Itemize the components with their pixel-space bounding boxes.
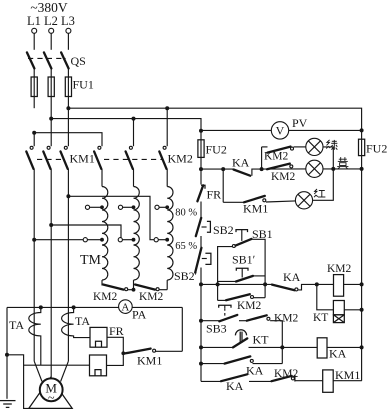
- wire coil3 bottom stub: [166, 280, 168, 290]
- node green branch: [260, 167, 264, 171]
- wire red row: [223, 169, 333, 202]
- terminal L3: [66, 28, 71, 33]
- node lamps right: [360, 167, 364, 171]
- svg-text:KM2: KM2: [93, 291, 118, 303]
- node SB1 branch left: [216, 282, 220, 286]
- autotransformer TM coil 1: [102, 187, 108, 281]
- svg-text:SB2: SB2: [213, 223, 234, 237]
- switch QS pole 1: [27, 52, 35, 77]
- svg-text:KM2: KM2: [264, 151, 289, 163]
- wire red branch vertical: [222, 169, 224, 202]
- autotransformer TM coil 2: [134, 187, 140, 281]
- wire green row: [262, 147, 334, 169]
- wire TA1 bottom to FR2: [24, 364, 90, 366]
- svg-text:SB2ʹ: SB2ʹ: [174, 269, 198, 283]
- relay contact KM1 ammeter: [125, 307, 182, 353]
- node frame bond: [5, 353, 9, 357]
- node coil KT right: [360, 308, 364, 312]
- contactor KM2 pole 3: [159, 146, 167, 186]
- wire row1: [201, 284, 334, 290]
- pushbutton SB2: [196, 218, 211, 236]
- label red hanzi: [314, 189, 325, 197]
- node phase3 tap feed: [66, 194, 70, 198]
- contactor KM1 pole 2: [43, 146, 51, 380]
- wire motor lead 3: [61, 361, 69, 381]
- node TA2 top: [72, 305, 76, 309]
- node KT row junction: [280, 345, 284, 349]
- fuse FU2 right: [359, 139, 365, 381]
- svg-text:L1: L1: [27, 14, 41, 28]
- thermal element FR1: [90, 327, 107, 347]
- svg-text:FR: FR: [109, 324, 124, 338]
- relay contact KA bottom: [221, 374, 247, 381]
- svg-text:TA: TA: [9, 318, 24, 332]
- current transformer TA2: [62, 307, 90, 337]
- svg-text:KM1: KM1: [70, 152, 95, 166]
- wire coil1 bottom stub: [101, 280, 103, 285]
- wire rail SB2 to SB2p: [200, 236, 202, 248]
- svg-text:PA: PA: [132, 308, 147, 322]
- svg-text:~: ~: [48, 390, 55, 404]
- node row2 left: [199, 319, 203, 323]
- terminal L2: [49, 28, 54, 33]
- relay contact KA lamp row: [234, 170, 251, 176]
- wire KT branch: [317, 284, 334, 309]
- svg-text:KA: KA: [232, 156, 250, 170]
- relay contact KA row1: [272, 285, 298, 291]
- node KM2 pole2 feed: [132, 117, 136, 121]
- wire L2 drop to QS: [50, 33, 52, 50]
- node L2 branch junction: [49, 117, 53, 121]
- svg-text:KA: KA: [329, 347, 347, 361]
- node coil KM2 right: [360, 282, 364, 286]
- node L1 branch junction: [32, 131, 36, 135]
- relay holding contact KM2: [218, 284, 266, 300]
- svg-text:QS: QS: [71, 54, 86, 68]
- current transformer TA1: [29, 307, 41, 365]
- label yellow hanzi: [337, 157, 348, 169]
- wire L3 drop to QS: [67, 33, 69, 50]
- tap 65 coil2: [118, 238, 135, 242]
- terminal L1: [32, 28, 37, 33]
- svg-text:KM2: KM2: [274, 368, 299, 380]
- switch QS pole 2: [44, 52, 52, 77]
- node lamp collector: [331, 167, 335, 171]
- voltmeter PV: [271, 122, 288, 139]
- fuse FU1 phase 2: [48, 77, 54, 119]
- contact KM1 red: [244, 196, 266, 202]
- node phase1 tap feed: [32, 238, 36, 242]
- contactor KM1 pole 1: [26, 146, 34, 361]
- wire right rail: [361, 130, 363, 139]
- thermal element FR2: [90, 355, 107, 376]
- coil KA: [317, 338, 361, 358]
- svg-text:SB1: SB1: [252, 227, 273, 241]
- node star junction: [132, 288, 136, 292]
- node row4 left: [199, 362, 203, 366]
- coil KT with delay element: [333, 301, 361, 323]
- lamp yellow: [306, 160, 323, 177]
- tap 65 coil1: [83, 238, 104, 242]
- node phase2 tap feed: [49, 223, 53, 227]
- motor mount triangle: [29, 378, 72, 409]
- tap 80 coil3: [155, 205, 169, 209]
- svg-text:A: A: [121, 302, 129, 314]
- wire row3: [201, 346, 317, 348]
- wire coil2 bottom stub: [133, 280, 135, 290]
- svg-text:~380V: ~380V: [30, 0, 68, 15]
- wire phase3 to coil3 65 tap: [68, 196, 154, 239]
- pushbutton SB2 prime: [195, 248, 211, 273]
- contactor KM1 pole 3: [61, 146, 69, 361]
- wire row4: [201, 347, 282, 363]
- node TA1 top: [39, 305, 43, 309]
- switch QS pole 3: [61, 52, 69, 77]
- motor M: [40, 378, 63, 404]
- svg-text:KM2: KM2: [237, 300, 262, 312]
- svg-text:KT: KT: [313, 312, 328, 324]
- wire TA secondary bus: [7, 306, 182, 308]
- wire left earth rail: [6, 307, 8, 398]
- wire L1 drop to QS: [33, 33, 35, 50]
- svg-text:SB1ʹ: SB1ʹ: [232, 253, 256, 267]
- svg-text:FU2: FU2: [366, 142, 387, 156]
- node KA row junction: [221, 167, 225, 171]
- svg-text:TA: TA: [75, 314, 90, 328]
- ammeter PA: [119, 300, 133, 314]
- fuse FU1 phase 1: [31, 77, 37, 108]
- node row1 left: [199, 282, 203, 286]
- thermal contact FR: [197, 185, 205, 201]
- svg-text:KM2: KM2: [327, 263, 352, 275]
- svg-text:KA: KA: [283, 270, 301, 284]
- tap 65 coil3: [154, 238, 169, 242]
- pushbutton SB1 prime: [218, 268, 266, 281]
- svg-text:L2: L2: [44, 14, 58, 28]
- svg-text:PV: PV: [292, 116, 308, 130]
- wire KA lamp row: [201, 169, 362, 176]
- svg-text:TM: TM: [80, 253, 102, 268]
- wire phase1 to KM1: [33, 133, 35, 147]
- relay holding contact KA: [225, 356, 254, 363]
- coil KM2: [334, 275, 362, 297]
- wire row2: [201, 321, 282, 348]
- svg-text:SB3: SB3: [206, 322, 227, 336]
- svg-text:KA: KA: [246, 364, 264, 378]
- svg-text:FR: FR: [207, 188, 222, 202]
- pushbutton SB1: [232, 230, 251, 248]
- wire feed KM2 pole2: [133, 119, 135, 147]
- coil KM1: [323, 370, 362, 392]
- wire FR1 right: [107, 337, 124, 365]
- wire left rail upper: [200, 157, 202, 184]
- node coil KA right: [360, 345, 364, 349]
- fuse FU1 phase 3: [65, 77, 71, 108]
- contactor KM2 star contact 2: [135, 285, 167, 291]
- contactor KM2 pole 1: [94, 146, 102, 186]
- wire motor frame bond: [7, 355, 33, 409]
- svg-text:L3: L3: [61, 14, 75, 28]
- time contact KT delayed close: [233, 330, 247, 348]
- wire L1 branch to KM2 pole1: [34, 133, 102, 147]
- wire L2 branch to control left rail: [51, 119, 201, 140]
- node row3 left: [199, 345, 203, 349]
- relay contact KM2 row2: [247, 315, 270, 320]
- QS linkage dashed: [28, 57, 66, 59]
- svg-text:FU1: FU1: [73, 78, 94, 92]
- ground symbol: [0, 401, 16, 408]
- contactor KM2 pole 2: [126, 146, 134, 186]
- node FR common: [121, 351, 125, 355]
- wire phase2 to KM1: [50, 119, 52, 147]
- svg-text:KM2: KM2: [271, 171, 296, 183]
- wire motor lead 1: [34, 361, 42, 381]
- wire row5 bottom: [201, 380, 323, 383]
- tap 80 coil1: terminal and dot: [85, 205, 104, 209]
- svg-text:V: V: [276, 124, 285, 138]
- svg-text:KM1: KM1: [243, 202, 268, 216]
- node KA row left: [199, 167, 203, 171]
- wire rail FR to SB2: [200, 202, 202, 219]
- wire SB1 branch: [218, 239, 266, 284]
- pushbutton SB3: [219, 305, 238, 321]
- svg-text:KM2: KM2: [168, 152, 193, 166]
- wire phase3 to KM1: [67, 108, 69, 146]
- autotransformer TM coil 3: [167, 187, 173, 281]
- label green hanzi: [326, 140, 337, 150]
- svg-text:FU2: FU2: [206, 143, 227, 157]
- svg-text:KM1: KM1: [335, 368, 360, 382]
- wire L3 branch to right rail: [68, 108, 361, 130]
- svg-text:KM1: KM1: [137, 354, 162, 368]
- contact KM2 yellow: [267, 164, 293, 170]
- contactor KM2 star contact 1: [103, 285, 134, 291]
- relay contact KM2 NC bottom: [272, 375, 295, 382]
- svg-text:80 %: 80 %: [175, 207, 197, 218]
- node L3 branch junction: [66, 106, 70, 110]
- wire feed KM2 pole3: [166, 108, 168, 146]
- lamp green: [306, 138, 323, 155]
- svg-text:KM2: KM2: [274, 313, 299, 325]
- tap 80 coil2: [118, 205, 135, 209]
- node SB1 branch right: [263, 282, 267, 286]
- node KT branch top: [315, 282, 319, 286]
- svg-text:KT: KT: [253, 333, 270, 347]
- svg-text:65 %: 65 %: [175, 241, 197, 252]
- wire green branch vertical: [261, 147, 263, 169]
- svg-text:KM2: KM2: [139, 291, 164, 303]
- wire phase1 to coil1 65 tap: [34, 239, 83, 241]
- contact KM2 green: [268, 147, 294, 153]
- fuse FU2 left: [198, 140, 204, 158]
- node PV right: [360, 128, 364, 132]
- wire PV row: [201, 129, 362, 131]
- wire rail SB2p to bottom: [200, 268, 202, 382]
- node KM2 pole3 feed: [165, 106, 169, 110]
- wire phase2 to coil2 65 tap: [51, 225, 121, 238]
- lamp red: [295, 192, 312, 209]
- svg-text:KA: KA: [226, 379, 244, 393]
- node PV row left: [199, 129, 203, 133]
- KM1 KM2 linkage dashed: [37, 158, 64, 160]
